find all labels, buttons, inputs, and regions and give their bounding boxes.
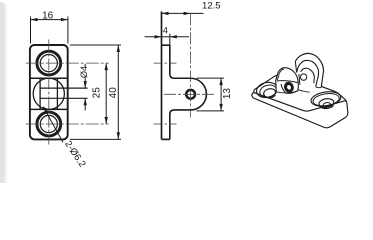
svg-text:2-Ø6.2: 2-Ø6.2: [62, 139, 88, 169]
svg-text:13: 13: [222, 88, 233, 100]
svg-text:12.5: 12.5: [202, 1, 221, 12]
svg-text:40: 40: [108, 87, 119, 99]
svg-text:25: 25: [91, 87, 102, 99]
svg-text:4: 4: [163, 26, 168, 36]
svg-text:Ø4: Ø4: [79, 66, 89, 78]
svg-text:16: 16: [42, 10, 54, 21]
